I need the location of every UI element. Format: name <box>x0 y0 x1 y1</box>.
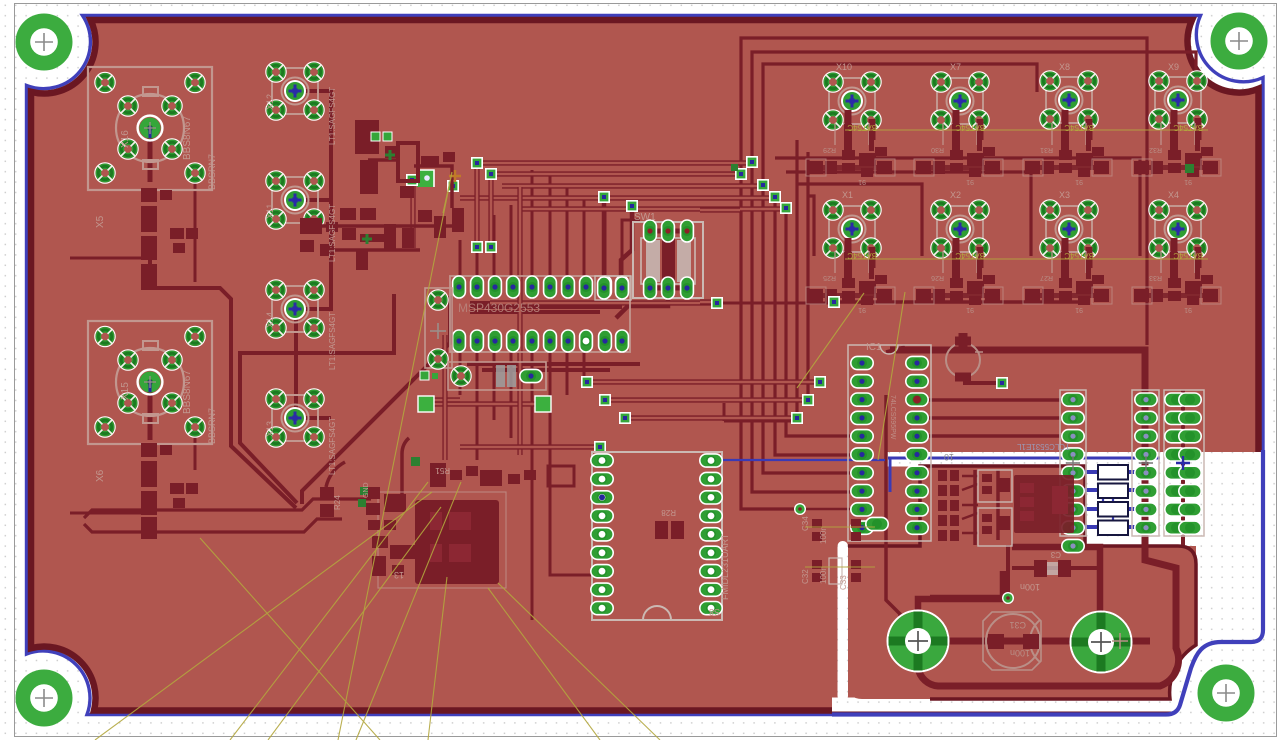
airwire 9 <box>878 292 905 460</box>
power hole pad X17 <box>888 611 949 672</box>
svg-text:91: 91 <box>858 178 866 185</box>
svg-text:FMIDL231UART: FMIDL231UART <box>720 533 730 600</box>
capacitor C34 <box>812 519 861 541</box>
wire hatched y418 <box>625 415 797 420</box>
wires inside cluster <box>310 160 452 250</box>
wire via1008 horiz <box>930 595 1008 602</box>
svg-text:X5: X5 <box>95 215 106 228</box>
svg-text:X16: X16 <box>120 130 131 148</box>
orange marker <box>449 170 461 182</box>
via round at IC1 elbow <box>794 503 806 515</box>
connector X4 <box>1149 200 1207 258</box>
labels R row1 clusters <box>823 146 1192 313</box>
mounting hole bottom-left <box>16 670 73 727</box>
svg-text:R27: R27 <box>1040 274 1053 281</box>
svg-text:X6: X6 <box>95 469 106 482</box>
wire X15 SE pad down <box>194 428 197 470</box>
wire X15 aux horizontal <box>70 512 146 515</box>
resistor cluster under X4 <box>1132 238 1221 305</box>
connector X10 <box>823 72 881 130</box>
airwire 1 <box>95 492 432 740</box>
wire blue stubs diodes left <box>1084 472 1098 527</box>
copper-free bottom band <box>832 698 1266 712</box>
via green dot right of thick trace <box>1185 164 1194 173</box>
svg-text:MSP430G2553: MSP430G2553 <box>458 301 540 315</box>
components left of IC2 <box>366 487 416 576</box>
mounting hole top-right <box>1211 13 1268 70</box>
wire C3 links <box>1012 566 1100 570</box>
svg-text:BAT54C: BAT54C <box>1064 123 1094 132</box>
connector X13 <box>266 389 324 447</box>
wire X15 center stub <box>148 388 153 440</box>
svg-text:R25: R25 <box>823 274 836 281</box>
wire MCU to DIP elbows <box>567 350 584 395</box>
svg-text:C31: C31 <box>1009 620 1026 630</box>
wire top bus L1 <box>741 38 1147 345</box>
IC IC1 left pad column <box>851 356 873 534</box>
airwire 12 <box>805 526 875 528</box>
wire MCU wide bus under chip <box>470 301 622 309</box>
wire X16 R column to loop <box>150 255 296 508</box>
wire colB upper verticals <box>1144 395 1148 452</box>
svg-text:R32: R32 <box>1149 146 1162 153</box>
svg-text:100n: 100n <box>1010 648 1030 658</box>
svg-text:100n: 100n <box>1020 582 1040 592</box>
wire hatched y185 <box>502 183 763 188</box>
connector X7 <box>931 72 989 130</box>
copper-free white channel <box>838 541 849 701</box>
svg-text:X9: X9 <box>1168 62 1179 72</box>
extra oval pad pair left of IC1 bottom <box>866 517 888 530</box>
wire row2 bus E1 <box>775 158 1140 256</box>
wire blue verticals IC5 <box>1103 490 1113 530</box>
wire hatched verticals from vias <box>477 163 491 247</box>
svg-text:BAT54C: BAT54C <box>847 123 877 132</box>
wire hatched y174 <box>491 171 741 176</box>
svg-text:91: 91 <box>1184 306 1192 313</box>
svg-text:91: 91 <box>1075 306 1083 313</box>
svg-text:X10: X10 <box>836 62 852 72</box>
svg-text:C32: C32 <box>801 569 810 584</box>
yellow value texts <box>847 123 1203 260</box>
regulator IC5 area <box>978 470 1074 546</box>
svg-text:X2: X2 <box>950 190 961 200</box>
svg-text:X4: X4 <box>1168 190 1179 200</box>
airwire 8 <box>498 583 660 740</box>
wire row2 bus E4 <box>808 152 814 400</box>
wire via row y303 <box>717 302 834 305</box>
via near SW1 <box>598 191 610 203</box>
svg-text:BAT54C: BAT54C <box>1173 123 1203 132</box>
copper-free white strip <box>885 452 1196 467</box>
svg-text:C3: C3 <box>1050 550 1061 559</box>
wire U1 lower horizontals <box>467 364 640 370</box>
copper-free white region right <box>1196 452 1265 714</box>
svg-text:BAT54C: BAT54C <box>955 123 985 132</box>
wire pad1 up elbow <box>918 571 1003 636</box>
wire IC1 right col rows to colA <box>917 400 1073 436</box>
svg-text:LT1:SAGFS4GT: LT1:SAGFS4GT <box>328 312 337 370</box>
connector X8 <box>1040 71 1098 129</box>
wire hatched y163 <box>477 160 752 165</box>
svg-text:BBS8N67: BBS8N67 <box>182 370 193 414</box>
svg-text:91: 91 <box>858 306 866 313</box>
wire hatched y400 <box>605 397 808 402</box>
via small dark <box>411 457 420 466</box>
wire vertical x724 <box>724 403 800 421</box>
resistor cluster under X1 <box>806 238 895 305</box>
wire colC vertical <box>1181 390 1185 545</box>
pin header column B <box>1132 390 1159 536</box>
airwire 4 <box>338 172 452 740</box>
connector X16 big footprint <box>88 67 212 190</box>
IC U1 MSP430 outline <box>450 276 630 352</box>
svg-text:S8: S8 <box>709 607 720 617</box>
components above IC2 <box>430 463 574 487</box>
wire loop A <box>84 499 371 518</box>
connector X3 <box>1040 200 1098 258</box>
airwire 10 <box>797 293 864 388</box>
wire hatched vertical x413 <box>410 186 415 248</box>
svg-text:10: 10 <box>944 452 954 462</box>
svg-text:91: 91 <box>1075 178 1083 185</box>
svg-text:SW1: SW1 <box>634 212 656 223</box>
svg-text:X1: X1 <box>842 190 853 200</box>
wire bus verticals down to IC1 elbows <box>741 162 853 509</box>
connector X14 <box>266 280 324 338</box>
via stair right group <box>746 156 758 168</box>
airwire 3 <box>268 507 441 740</box>
connector pads left of SW1 <box>595 276 631 300</box>
wire SW1 row link <box>650 231 687 288</box>
via pair y303 <box>711 297 723 309</box>
mounting hole bottom-right <box>1198 665 1255 722</box>
trimmer footprint below U1 <box>420 362 546 390</box>
via round power <box>1002 592 1014 604</box>
resistor R24 <box>320 487 334 517</box>
wire IC1 top stub <box>886 347 905 352</box>
wire hatched vertical x445 <box>442 335 447 460</box>
pad centers IC1 blue <box>859 360 919 530</box>
svg-text:13: 13 <box>394 570 404 580</box>
green cross markers <box>385 150 395 160</box>
wire pad2 up and left <box>1012 547 1100 636</box>
via stair left group <box>471 157 483 169</box>
airwire 13 <box>805 566 875 568</box>
svg-text:GND: GND <box>363 482 370 498</box>
wire blue DIP to IC1 <box>716 459 885 461</box>
via square near C16 <box>996 377 1008 389</box>
svg-text:BBSRN7: BBSRN7 <box>207 154 217 190</box>
pad white holes DIP28 <box>599 457 715 611</box>
wire hatched pair stubs at SW right <box>700 210 740 302</box>
pad pin1 blue dots U1 <box>456 284 624 343</box>
airwire 11 <box>443 172 452 213</box>
svg-text:91: 91 <box>1184 178 1192 185</box>
capacitor C16 footprint <box>946 333 983 377</box>
wire IC1 mid trace down <box>886 395 900 636</box>
svg-text:R28: R28 <box>661 508 676 517</box>
airwire 5 <box>356 482 461 740</box>
wire thick y350 power <box>890 350 1179 686</box>
capacitor C3 <box>1034 560 1071 577</box>
wire hatched y382 <box>587 379 820 384</box>
svg-text:91: 91 <box>966 178 974 185</box>
diode D2 <box>1098 484 1128 499</box>
wire MCU bottom verticals <box>460 350 592 620</box>
wire X12 chain vertical <box>295 91 331 418</box>
svg-text:X11: X11 <box>265 204 275 219</box>
connector X11 <box>266 171 324 229</box>
wire SW1 pads down-left <box>604 200 668 318</box>
svg-text:R24: R24 <box>333 495 342 510</box>
wire hatched y303 <box>490 300 717 305</box>
svg-text:BBS8N67: BBS8N67 <box>182 116 193 160</box>
svg-text:LT1:SAGFS4GT: LT1:SAGFS4GT <box>328 204 337 262</box>
wire X16 SE pad down <box>194 176 197 282</box>
pin header column A <box>1060 390 1086 553</box>
wire loop B <box>84 519 342 532</box>
wire hatched y400 from green pad <box>421 397 460 402</box>
diode D1 <box>1098 465 1128 480</box>
wire X16 center stub <box>148 134 153 182</box>
wire long horiz y302 <box>834 300 1090 304</box>
airwire row1 <box>845 129 1208 131</box>
connector X2 <box>931 200 989 258</box>
svg-text:X13: X13 <box>265 421 275 437</box>
svg-text:C33: C33 <box>839 575 848 590</box>
mounting hole top-left <box>16 14 73 71</box>
svg-text:X14: X14 <box>265 312 275 328</box>
wire row2 bus E3 <box>797 140 922 418</box>
wire hatched y209 <box>520 206 786 211</box>
svg-text:IC1: IC1 <box>866 342 882 353</box>
svg-text:X8: X8 <box>1059 62 1070 72</box>
test pad right <box>535 396 551 412</box>
svg-text:100n: 100n <box>819 526 828 544</box>
svg-text:LT1:SAGFS4GT: LT1:SAGFS4GT <box>328 417 337 475</box>
svg-text:BBSRN7: BBSRN7 <box>207 408 217 444</box>
power hole pad X18 <box>1071 612 1132 673</box>
resistor cluster under X9 <box>1132 110 1221 177</box>
wire top bus L2 <box>752 52 1196 162</box>
wire cap C16 link <box>963 381 1000 385</box>
airwire 6 <box>428 577 447 740</box>
diode D3 <box>1098 502 1128 517</box>
svg-text:R51: R51 <box>435 466 450 475</box>
IC U1 bottom pad row <box>453 330 629 352</box>
connector X1 <box>823 200 881 258</box>
airwire row2 <box>845 258 1208 260</box>
wire top bus L3 <box>763 64 1037 185</box>
svg-text:X7: X7 <box>950 62 961 72</box>
power block copper <box>848 466 1196 699</box>
airwire 2 <box>230 482 428 740</box>
connector X9 <box>1149 71 1207 129</box>
svg-text:X12: X12 <box>265 94 275 110</box>
wire hatched y197 <box>460 195 775 200</box>
svg-text:R30: R30 <box>931 146 944 153</box>
wire X16 aux horizontal <box>70 257 146 260</box>
test pad left <box>418 396 434 412</box>
svg-text:LT1:SAGFS4GT: LT1:SAGFS4GT <box>328 87 337 145</box>
DIP28 left pad column <box>591 454 613 615</box>
wire X13 elbow to MCU area <box>240 294 394 503</box>
wire hatched y447 <box>460 444 600 449</box>
IC IC1 outline <box>848 345 931 541</box>
wire power horiz through cap <box>918 638 1150 645</box>
wire row2 bus E2 <box>786 172 1031 256</box>
svg-text:100n: 100n <box>819 566 828 584</box>
test pad upper <box>417 170 434 187</box>
resistor column under X15 <box>141 443 198 539</box>
svg-text:X15: X15 <box>120 382 131 400</box>
blue bottom-layer traces <box>716 458 1160 530</box>
IC U1 top pad row <box>453 276 629 298</box>
airwire 14 <box>200 538 380 740</box>
pin header column C double <box>1164 390 1204 536</box>
wire S-curve into IC2 <box>402 438 409 512</box>
small green pads above U1 <box>371 132 380 141</box>
wire R24 elbow <box>326 462 345 487</box>
svg-text:TCLC5531E1L: TCLC5531E1L <box>1017 442 1070 451</box>
resistor cluster under X7 <box>914 110 1003 177</box>
resistor cluster under X10 <box>806 110 895 177</box>
resistor rows R11-R14 <box>938 470 959 541</box>
capacitor C32 <box>812 558 861 584</box>
label C31 <box>1009 620 1030 658</box>
resistor cluster under X8 <box>1023 110 1112 177</box>
DIP28 right pad column <box>700 454 722 615</box>
svg-text:C34: C34 <box>801 516 810 531</box>
small green pads near IC2 <box>360 487 368 495</box>
resistor cluster under X3 <box>1023 238 1112 305</box>
wire IC5 verticals <box>975 470 998 545</box>
wire blue strip trace <box>888 457 1160 460</box>
svg-text:X3: X3 <box>1059 190 1070 200</box>
DIP28 socket outline <box>592 452 722 620</box>
svg-text:R29: R29 <box>823 146 836 153</box>
svg-text:R33: R33 <box>1149 274 1162 281</box>
connector X15 big footprint <box>88 321 212 444</box>
wire blue stubs diodes right <box>1128 472 1145 527</box>
wire MCU top verticals to hatched rows <box>532 170 640 278</box>
wire hatched y404 between test pads <box>426 401 543 406</box>
wire hatched vertical x520 <box>517 187 522 455</box>
resistor column under X16 <box>141 188 198 290</box>
resistor R28 <box>655 521 684 539</box>
svg-text:91: 91 <box>966 306 974 313</box>
airwire 7 <box>488 588 600 740</box>
wire transistor block traces <box>962 476 978 533</box>
capacitor C31 electrolytic <box>983 612 1128 670</box>
wire MCU top bundle <box>460 205 511 278</box>
svg-text:R26: R26 <box>931 274 944 281</box>
via mid staircase <box>581 376 593 388</box>
IC IC1 right pad column <box>906 356 928 534</box>
crystal Q1 footprint <box>425 288 452 369</box>
connector X12 <box>266 62 324 120</box>
cluster left of U1 top <box>300 120 464 270</box>
resistor cluster under X2 <box>914 238 1003 305</box>
switch SW1 <box>633 220 703 299</box>
wire big diagonal <box>302 296 450 504</box>
IC IC2 big block <box>378 492 506 588</box>
svg-text:R31: R31 <box>1040 146 1053 153</box>
svg-text:74LCS595PW: 74LCS595PW <box>889 395 896 440</box>
blue outline redraw bottom right <box>832 450 1263 715</box>
diode D4 <box>1098 521 1128 536</box>
copper-free white pocket <box>1085 452 1196 546</box>
